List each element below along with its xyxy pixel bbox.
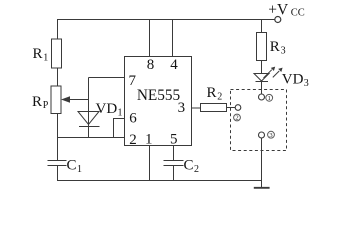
svg-text:R: R [207, 85, 217, 101]
svg-text:4: 4 [170, 57, 178, 73]
wiper arrowhead RP [61, 96, 70, 103]
dashed box [231, 90, 287, 151]
svg-text:2: 2 [217, 91, 222, 102]
svg-text:7: 7 [129, 73, 137, 89]
wire left vertical top [57, 20, 59, 40]
node terminal 1 [259, 94, 265, 100]
svg-text:+V: +V [268, 1, 289, 18]
op-amp U1 NE555 box [125, 57, 192, 146]
wire R1 to RP [57, 68, 59, 86]
LED arrow 1 [264, 70, 272, 78]
circled 1 [266, 94, 273, 101]
wire pin 6 stub [114, 119, 125, 138]
svg-text:2: 2 [194, 164, 199, 175]
svg-text:NE555: NE555 [137, 87, 181, 104]
wire VD1 cathode down [88, 127, 90, 138]
node terminal 2 [235, 105, 241, 111]
LED arrow 2 [273, 71, 279, 77]
svg-text:CC: CC [291, 8, 305, 19]
wire pin 4 [172, 20, 174, 57]
terminal +VCC [275, 17, 281, 23]
svg-text:1: 1 [77, 164, 82, 175]
svg-text:R: R [33, 46, 43, 62]
wire pin 1 [149, 146, 151, 181]
wire R2 to terminal 2 [227, 107, 236, 109]
svg-text:3: 3 [178, 100, 186, 116]
wire RP wiper [63, 99, 89, 101]
LED VD3 [254, 74, 269, 82]
wire pin 3 stub [192, 107, 201, 109]
resistor R3 [257, 33, 267, 61]
LED arrowhead 2 [278, 68, 282, 72]
svg-text:R: R [32, 94, 42, 110]
svg-text:C: C [67, 157, 77, 173]
wire C2 down [173, 166, 175, 181]
node terminal 3 [259, 132, 265, 138]
wire LED to terminal 1 [261, 82, 263, 95]
wire pin 5 [173, 146, 175, 161]
LED arrowhead 1 [271, 67, 275, 71]
svg-text:8: 8 [147, 57, 155, 73]
svg-text:3: 3 [304, 78, 309, 89]
svg-text:1: 1 [268, 95, 271, 102]
wire pin 7 stub [89, 77, 125, 79]
wire bottom rail [57, 180, 262, 182]
svg-text:C: C [184, 157, 194, 173]
svg-text:P: P [43, 100, 49, 111]
circled 2 [234, 114, 241, 121]
svg-text:VD: VD [96, 101, 118, 117]
wire node line y137 [57, 137, 125, 139]
svg-text:3: 3 [281, 46, 286, 57]
wire pin 8 [149, 20, 151, 57]
diode VD1 [78, 112, 99, 125]
wire R3 to LED [261, 61, 263, 74]
svg-text:R: R [270, 39, 280, 55]
svg-text:1: 1 [118, 108, 123, 119]
svg-text:1: 1 [145, 132, 153, 148]
svg-text:2: 2 [235, 115, 238, 122]
wire pin7 drop [88, 78, 90, 127]
capacitor C2 [164, 161, 184, 166]
wire C1 to ground rail [57, 166, 59, 181]
wire R3 top [261, 20, 263, 33]
potentiometer RP [51, 86, 61, 114]
svg-text:1: 1 [43, 53, 48, 64]
wire RP down to node line [57, 114, 59, 161]
svg-text:2: 2 [129, 132, 137, 148]
wire top rail VCC [57, 19, 275, 21]
circled 3 [268, 131, 275, 138]
svg-text:6: 6 [129, 111, 137, 127]
svg-text:VD: VD [282, 71, 304, 87]
ground [254, 187, 270, 189]
capacitor C1 [48, 161, 67, 166]
resistor R2 [201, 104, 227, 112]
svg-text:5: 5 [170, 132, 178, 148]
resistor R1 [52, 39, 62, 68]
wire terminal 3 to ground [261, 138, 263, 188]
